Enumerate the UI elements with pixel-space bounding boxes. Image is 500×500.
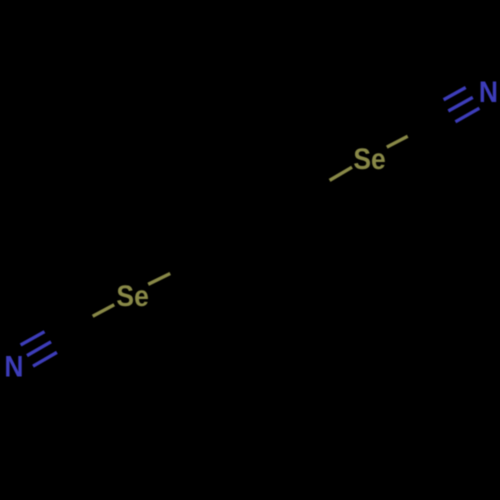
svg-text:N: N [4, 350, 23, 383]
node N molecule 2 [479, 76, 498, 109]
wire: triple bond C#N molecule 1 (N half, blue) middle line [27, 342, 51, 356]
node Se molecule 1 [116, 280, 148, 313]
svg-text:Se: Se [116, 280, 148, 313]
wire: triple bond C#N molecule 1 (N half, blue) bottom line [33, 352, 57, 366]
wire: bond Se-CH3 molecule 1 (Se half, olive) [148, 274, 170, 285]
wire: triple bond C#N molecule 2 (N half, blue) bottom line [455, 108, 479, 122]
molecule 1: methyl selenocyanate CH3-Se-C#N (bottom-left), carbons invisible on black [21, 274, 171, 367]
node N molecule 1 [4, 350, 23, 383]
molecule 2: methyl selenocyanate CH3-Se-C#N (top-right) [330, 88, 480, 181]
wire: triple bond C#N molecule 2 (N half, blue) middle line [448, 97, 473, 111]
wire: bond Se-C molecule 2 (Se half, olive) [387, 136, 408, 147]
wire: triple bond C#N molecule 1 (N half, blue) top line [21, 332, 45, 345]
wire: bond CH3-Se molecule 2 (Se half, olive) [330, 167, 352, 180]
wire: bond C-Se molecule 1 (Se half, olive) [93, 305, 115, 317]
svg-text:Se: Se [353, 143, 385, 176]
wire: triple bond C#N molecule 2 (N half, blue) top line [444, 88, 466, 100]
svg-text:N: N [479, 76, 498, 109]
node Se molecule 2 [353, 143, 385, 176]
